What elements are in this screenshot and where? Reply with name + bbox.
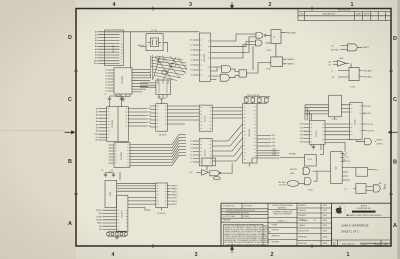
svg-text:ENBL: ENBL xyxy=(290,173,294,175)
svg-text:330 330 330 330: 330 330 330 330 xyxy=(247,95,260,97)
IC U4 body xyxy=(199,33,210,82)
svg-text:D2: D2 xyxy=(190,144,192,146)
svg-text:FINISH: FINISH xyxy=(244,216,250,218)
fold arrow right center xyxy=(389,131,398,134)
notes paragraph box xyxy=(224,224,264,246)
resistor pack R3 box xyxy=(258,98,262,102)
buffer gate G9 xyxy=(202,170,209,176)
svg-text:D2: D2 xyxy=(190,60,192,62)
svg-text:LS74: LS74 xyxy=(267,50,271,52)
svg-text:D0: D0 xyxy=(105,70,107,72)
U1 left pin labels xyxy=(94,31,97,66)
mid col row line b xyxy=(268,217,297,219)
cloud bottom taps xyxy=(158,78,168,84)
pin number texture U4 xyxy=(201,40,210,76)
notes header texts xyxy=(223,205,256,222)
svg-text:WR DATA: WR DATA xyxy=(287,31,296,34)
svg-text:DR1: DR1 xyxy=(272,139,275,141)
wire: U23 input xyxy=(354,188,356,190)
svg-text:DR0: DR0 xyxy=(272,135,275,137)
svg-text:DR5: DR5 xyxy=(300,142,303,144)
flip-flop U6 body xyxy=(271,57,283,66)
svg-text:A2: A2 xyxy=(96,114,98,117)
wire: U7 right pins xyxy=(359,71,362,77)
signoff col texts xyxy=(299,204,327,245)
svg-text:SHIFT: SHIFT xyxy=(363,47,369,49)
revision table column header line xyxy=(298,15,391,17)
resistor row R5 xyxy=(107,233,110,236)
mid col row line e xyxy=(268,233,297,235)
wire: U7 left pins xyxy=(338,71,349,78)
IC U3 body xyxy=(156,80,171,94)
wire bus: U4 left pins xyxy=(193,40,199,75)
rev cell divider xyxy=(380,240,382,246)
svg-text:PRODUCTION: PRODUCTION xyxy=(299,231,309,233)
revision table col aux1 xyxy=(370,11,372,20)
zone tick bottom 2/1 xyxy=(311,244,313,248)
svg-text:D5: D5 xyxy=(190,75,192,77)
NAND gate G2 xyxy=(255,40,262,46)
AND gate G3 xyxy=(222,66,231,73)
U12 left pin labels xyxy=(190,141,192,164)
svg-text:Q3: Q3 xyxy=(331,45,334,47)
capacitor C5 xyxy=(312,145,315,150)
cloud gate B xyxy=(170,64,176,67)
svg-text:COMPUTER INC.: COMPUTER INC. xyxy=(356,208,372,210)
wire bus: U15 right to U16 xyxy=(325,124,350,139)
U8 right net labels xyxy=(148,108,152,128)
svg-text:C: C xyxy=(393,97,397,103)
IC U17 body xyxy=(105,180,117,207)
mid col row line a xyxy=(268,209,297,211)
wire: U4 q4 to gate G3 xyxy=(211,67,222,71)
svg-text:A5: A5 xyxy=(96,123,98,126)
wire: U1 pin1 to bus top xyxy=(106,31,200,33)
svg-text:14: 14 xyxy=(121,50,123,52)
signoff date divider xyxy=(320,203,322,246)
svg-text:D6: D6 xyxy=(105,88,107,90)
svg-text:C3: C3 xyxy=(101,170,103,172)
capacitor C3 xyxy=(104,173,107,178)
pin number texture U18 xyxy=(118,210,128,229)
wire bus: U1 left pins xyxy=(98,32,120,64)
wire: G13 output xyxy=(383,184,385,188)
box U23 body xyxy=(356,183,366,193)
signoff col row2 xyxy=(297,212,332,214)
wire: G11 G12 outputs xyxy=(313,171,331,181)
svg-text:D3: D3 xyxy=(190,148,192,150)
svg-text:PHASE 1: PHASE 1 xyxy=(287,63,295,66)
svg-text:C1: C1 xyxy=(104,94,106,96)
wire: vertical bus right of U1 xyxy=(130,32,132,68)
svg-text:D6: D6 xyxy=(190,158,192,160)
IC U12 body xyxy=(199,138,212,166)
fold arrow bottom center xyxy=(231,247,234,253)
svg-text:LS174: LS174 xyxy=(205,149,207,156)
zone tick right B/A xyxy=(389,193,393,195)
crystal Y1 symbol xyxy=(150,38,158,47)
wire bus: U21 left feed rows xyxy=(341,154,345,162)
notes cell row4 divider xyxy=(241,215,243,219)
IC U10 body xyxy=(156,104,168,132)
pin number texture U13 xyxy=(244,107,256,160)
svg-text:PHASE 0: PHASE 0 xyxy=(171,184,178,187)
apple address bullet xyxy=(347,215,348,216)
signoff col row4 xyxy=(297,222,332,224)
box U22 body xyxy=(356,168,368,177)
svg-text:SHEET 1 OF 2: SHEET 1 OF 2 xyxy=(341,229,359,233)
wire: U2 ground rail xyxy=(116,94,130,99)
cloud left rail xyxy=(151,55,153,80)
svg-text:PHASE 3: PHASE 3 xyxy=(171,194,178,197)
wire: G9 input xyxy=(197,171,202,173)
svg-text:WR REQ: WR REQ xyxy=(331,49,339,51)
svg-text:LS174: LS174 xyxy=(205,115,207,122)
wire bus: U2 left pins xyxy=(108,70,114,91)
fold crease left margin xyxy=(0,130,64,132)
svg-text:EN1: EN1 xyxy=(368,106,371,108)
wire bundle: diagonal bus to U12 xyxy=(172,135,179,166)
title block divider mid/signoff xyxy=(296,203,298,246)
notes cell row3 line xyxy=(221,214,268,216)
svg-text:MOTOR: MOTOR xyxy=(171,198,178,200)
scale/sheet row line xyxy=(360,242,391,244)
wire: G6 output to U7 xyxy=(346,62,349,64)
wire bus: U10 right pins xyxy=(167,106,199,124)
zone tick left D/C xyxy=(74,70,78,72)
wire: Y1 right xyxy=(163,42,167,52)
title block divider notes/mid xyxy=(267,203,269,246)
signoff col row7 xyxy=(297,240,332,242)
wire bus: U3 bottom pins xyxy=(159,94,167,97)
wire bus: U14 left pins to vertical bus xyxy=(305,105,329,114)
svg-text:A7: A7 xyxy=(95,51,97,54)
flip-flop U20 body xyxy=(305,155,317,167)
title block left edge xyxy=(220,203,222,246)
wire: U4 q2 to G1 lower input xyxy=(211,37,257,53)
svg-text:D7: D7 xyxy=(190,162,192,164)
IC U9 body xyxy=(114,143,130,168)
svg-text:A0: A0 xyxy=(95,31,97,34)
svg-text:D7: D7 xyxy=(105,91,107,93)
U18 left pin labels xyxy=(96,210,103,231)
wire bus: U16 right outputs xyxy=(362,106,366,131)
svg-text:Q7: Q7 xyxy=(329,64,332,66)
svg-text:C9 22: C9 22 xyxy=(345,157,350,159)
svg-text:RD DATA: RD DATA xyxy=(363,69,372,72)
svg-text:DO4: DO4 xyxy=(148,122,152,124)
svg-text:TRK0: TRK0 xyxy=(98,213,102,215)
svg-text:A3: A3 xyxy=(95,39,97,42)
svg-text:LS323: LS323 xyxy=(316,131,318,136)
pin number texture U15 U16 xyxy=(311,105,361,142)
svg-text:EN2: EN2 xyxy=(368,113,371,115)
NAND gate G12 xyxy=(305,178,312,185)
svg-text:SCALE: SCALE xyxy=(361,244,368,247)
svg-text:A: A xyxy=(393,223,397,229)
wire bus: U9 right pins to bundle xyxy=(130,145,172,166)
resistor pack R2 box xyxy=(251,98,255,102)
svg-text:EN1: EN1 xyxy=(99,226,102,228)
svg-text:A9: A9 xyxy=(95,57,97,60)
notes cell row4 line xyxy=(221,217,268,219)
title block top edge xyxy=(221,202,391,204)
wire bus: U21 right pins xyxy=(342,155,356,180)
wire: U5 to U6 vertical xyxy=(275,43,277,57)
wire: U19 bottom pin xyxy=(161,208,163,211)
zone tick bottom 4/3 xyxy=(152,244,154,248)
transistor Q1 xyxy=(287,181,299,187)
inverter bubble G10 xyxy=(219,172,221,174)
title block divider signoff/logo xyxy=(331,203,333,246)
wire bus: U8 left pins xyxy=(99,109,107,140)
svg-text:3: 3 xyxy=(121,41,122,43)
wire: G6 inputs xyxy=(333,62,337,65)
svg-text:Q6: Q6 xyxy=(329,61,332,63)
capacitor C2 xyxy=(120,96,123,102)
NAND gate G1 xyxy=(256,33,263,39)
svg-text:2: 2 xyxy=(269,2,272,8)
svg-text:1: 1 xyxy=(347,252,350,258)
svg-text:ASSEMBLY: ASSEMBLY xyxy=(278,207,288,210)
svg-text:A0: A0 xyxy=(96,107,98,110)
IC U14 body xyxy=(329,95,342,117)
wire: G1 out to FF U5 xyxy=(266,34,271,36)
svg-text:LS251: LS251 xyxy=(332,119,337,121)
pin number texture U10 xyxy=(157,106,166,127)
wire bus: U3 left pins xyxy=(140,83,156,87)
svg-text:A1: A1 xyxy=(96,111,98,114)
wire: U16 bottom to gate G8 xyxy=(356,140,364,142)
wire bus: U18 left pins xyxy=(103,210,117,229)
svg-text:WR REQ: WR REQ xyxy=(289,154,297,156)
svg-text:A2: A2 xyxy=(95,36,97,39)
gate G10 xyxy=(210,170,219,175)
svg-text:DATE: DATE xyxy=(356,12,361,15)
pin number texture U8 xyxy=(108,109,127,138)
resistor R20 box xyxy=(239,70,246,77)
wire: resistor row to ground xyxy=(108,235,126,237)
svg-text:9: 9 xyxy=(121,32,122,34)
svg-text:A10: A10 xyxy=(94,60,97,63)
NAND gate G11 xyxy=(303,168,310,175)
svg-text:74LS323: 74LS323 xyxy=(204,53,206,62)
wire: G3 out to R20 xyxy=(231,69,239,72)
svg-text:74: 74 xyxy=(273,37,275,39)
svg-text:13: 13 xyxy=(121,47,123,49)
svg-text:DM 8131: DM 8131 xyxy=(122,210,124,218)
wire: U7 clock from G6 xyxy=(350,63,352,67)
svg-text:Q3: Q3 xyxy=(190,172,192,174)
notes cell row5 line xyxy=(221,221,268,223)
cloud gate A xyxy=(158,59,164,62)
wire: U24 to G9 xyxy=(206,166,208,171)
wire: U15 extra output row xyxy=(325,142,345,151)
AND gate G5 xyxy=(348,44,358,51)
svg-text:PHASE 0: PHASE 0 xyxy=(287,58,295,61)
svg-text:D: D xyxy=(393,36,397,42)
svg-text:REVISIONS: REVISIONS xyxy=(338,10,350,12)
svg-text:5: 5 xyxy=(121,38,122,40)
wire bus: U18 bottom resistors xyxy=(108,231,127,232)
svg-text:PHASE 1: PHASE 1 xyxy=(171,187,178,190)
svg-text:APPD: APPD xyxy=(364,12,370,15)
svg-text:A6: A6 xyxy=(96,127,98,130)
IC U18 body xyxy=(117,195,128,231)
svg-text:A3: A3 xyxy=(96,117,98,120)
wire bus: U2 right pins to logic cloud xyxy=(132,70,151,92)
wire bus: U17 right pins to U19 xyxy=(117,183,156,191)
resistor row R6 xyxy=(111,233,114,236)
svg-text:D1: D1 xyxy=(105,73,107,75)
wire: U23 to G13 xyxy=(366,187,373,191)
U4 left pin labels xyxy=(189,40,193,77)
wire bundle: diagonal continuation xyxy=(179,135,186,156)
svg-text:DR2: DR2 xyxy=(272,142,275,144)
U19 right net labels xyxy=(171,184,178,206)
svg-text:AD 0-7: AD 0-7 xyxy=(138,44,145,47)
svg-text:RD DATA: RD DATA xyxy=(363,75,372,78)
svg-text:DO2: DO2 xyxy=(148,115,152,117)
wire: U20 input xyxy=(280,156,305,158)
svg-text:DR6: DR6 xyxy=(273,154,276,156)
svg-text:CHECKED: CHECKED xyxy=(299,210,307,212)
svg-text:R10 1K: R10 1K xyxy=(345,161,352,163)
wire: G4 out to R20 xyxy=(230,76,240,78)
svg-text:050-2005-00: 050-2005-00 xyxy=(342,244,355,246)
svg-text:LS132: LS132 xyxy=(308,189,313,191)
svg-text:C4: C4 xyxy=(111,170,113,172)
svg-text:12: 12 xyxy=(121,53,123,55)
svg-text:Y1 7M: Y1 7M xyxy=(151,30,157,32)
svg-text:4: 4 xyxy=(113,2,116,8)
svg-text:DO3: DO3 xyxy=(148,119,152,121)
revision table header line xyxy=(298,10,391,12)
crystal Y1 symbol plates xyxy=(148,40,161,46)
svg-text:DO1: DO1 xyxy=(148,112,152,114)
U8 left pin labels xyxy=(95,107,99,141)
wire: U6 outputs xyxy=(283,59,286,64)
svg-text:P6 ROM: P6 ROM xyxy=(121,152,123,160)
svg-text:SYM: SYM xyxy=(299,13,303,15)
signoff col row3 xyxy=(297,217,332,219)
wire: U13 bottom pin xyxy=(249,163,251,167)
NAND gate G13 xyxy=(373,185,380,192)
wire: U15 bottom drops to motor section xyxy=(312,145,324,155)
svg-text:74LS365: 74LS365 xyxy=(113,44,115,53)
flip-flop U5 body xyxy=(271,30,281,44)
pin number texture U9 xyxy=(115,145,129,166)
svg-text:WREQ: WREQ xyxy=(97,223,103,225)
size cell divider xyxy=(337,240,339,246)
svg-text:EN2: EN2 xyxy=(99,229,102,231)
svg-text:WPROT: WPROT xyxy=(96,210,102,212)
signoff col row1 xyxy=(297,207,332,209)
U21 feed labels xyxy=(345,153,352,163)
wire: caps rail xyxy=(110,96,122,107)
apple company name xyxy=(356,204,372,210)
U1 right pin numbers xyxy=(121,32,123,64)
svg-text:PH ON: PH ON xyxy=(368,124,374,126)
svg-text:B: B xyxy=(393,160,397,166)
svg-text:74LS259: 74LS259 xyxy=(159,135,167,137)
wire bus: U12 left pins xyxy=(193,141,199,162)
svg-text:DO0: DO0 xyxy=(148,108,152,110)
wire: G11 inputs xyxy=(302,169,303,173)
svg-text:2: 2 xyxy=(271,252,274,258)
svg-text:LS245: LS245 xyxy=(355,119,357,124)
svg-text:RW: RW xyxy=(95,140,98,142)
U2 left pin labels xyxy=(105,70,107,93)
svg-text:ULN2003: ULN2003 xyxy=(157,213,165,215)
svg-text:A4: A4 xyxy=(95,42,97,45)
wire: G5 output xyxy=(357,46,362,48)
wire bus: vertical drop to U15 xyxy=(305,105,312,121)
mid col row line f xyxy=(268,239,297,241)
svg-text:11: 11 xyxy=(121,44,123,46)
IC U8 internal divider xyxy=(117,107,119,142)
wire: U4 q0 up to gate G1 xyxy=(211,34,257,41)
crystal Y1 box xyxy=(146,34,163,51)
svg-text:MTR ON: MTR ON xyxy=(290,169,297,171)
mid col row line c xyxy=(268,222,297,224)
fold arrow left center xyxy=(65,131,75,134)
scale sheet texts xyxy=(361,244,388,247)
apple logo rays xyxy=(335,204,346,214)
svg-text:1/4 W 5%: 1/4 W 5% xyxy=(279,184,287,186)
pin number texture U11 U12 xyxy=(200,108,211,163)
svg-text:LS74: LS74 xyxy=(350,87,354,89)
svg-text:DR0: DR0 xyxy=(300,124,303,126)
zone tick right D/C xyxy=(389,70,393,72)
svg-text:DESCRIPTION: DESCRIPTION xyxy=(323,13,336,15)
wire: U4 q1 to gate G2 xyxy=(211,42,256,47)
svg-text:C: C xyxy=(68,97,72,103)
svg-text:7: 7 xyxy=(121,35,122,37)
notes cell row1 line xyxy=(221,208,268,210)
cloud mesh wires slanted xyxy=(151,56,187,81)
wire bus: U14 right to U16 xyxy=(341,105,349,112)
revision table frame xyxy=(298,9,391,21)
flip-flop U7 body xyxy=(349,68,359,81)
zone tick top 4/3 xyxy=(152,7,154,11)
zone tick bottom 3/2 xyxy=(231,244,233,248)
wire bus: U9 left pins xyxy=(109,145,115,163)
scale/sheet divider xyxy=(374,243,376,246)
svg-text:Q7: Q7 xyxy=(344,188,346,190)
svg-text:DR1: DR1 xyxy=(300,127,303,129)
IC U19 body xyxy=(156,183,168,208)
svg-text:A11: A11 xyxy=(94,62,97,65)
apple address black bar xyxy=(352,211,376,213)
capacitor C4 xyxy=(112,173,115,178)
svg-text:D5: D5 xyxy=(190,155,192,157)
svg-text:D3: D3 xyxy=(105,79,107,81)
svg-text:A7: A7 xyxy=(96,130,98,133)
svg-text:556: 556 xyxy=(335,166,337,169)
IC U21 body xyxy=(331,152,343,184)
svg-text:DRIVE 2: DRIVE 2 xyxy=(171,204,178,206)
scan edge right band xyxy=(397,0,400,259)
IC U15 body xyxy=(309,120,325,144)
svg-text:74LS323: 74LS323 xyxy=(249,128,251,137)
fold arrow top center xyxy=(231,2,234,8)
svg-text:A1: A1 xyxy=(95,33,97,36)
logo cell bottom line xyxy=(332,217,392,219)
IC U1 body xyxy=(105,30,124,66)
svg-text:D1: D1 xyxy=(190,55,192,57)
IC U8 body xyxy=(107,107,129,142)
